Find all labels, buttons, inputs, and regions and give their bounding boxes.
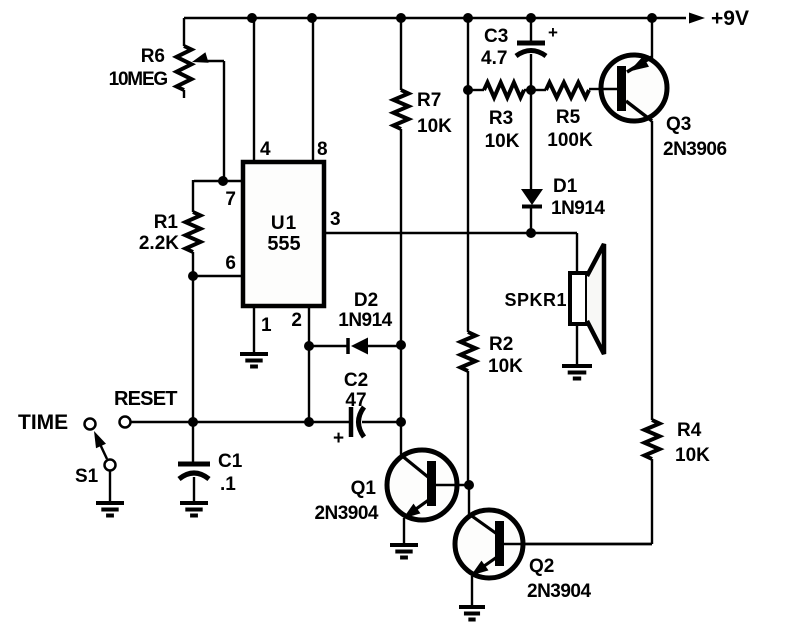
svg-text:3: 3 [330,209,341,230]
node reset-R1-C1 junction [188,417,198,427]
wire pin7 to R1 [192,180,194,212]
wire pin2 to D2 [309,345,347,347]
label C3 value [481,26,508,69]
svg-text:C3: C3 [484,26,508,47]
resistor R3 [484,83,524,98]
svg-text:+: + [548,23,558,42]
node RESET terminal [120,417,131,428]
svg-text:R3: R3 [489,108,513,129]
label pin 1 [261,315,272,336]
ground speaker [562,366,592,379]
label pin 6 [225,253,236,274]
label S1 [75,466,99,487]
svg-text:10K: 10K [485,131,520,152]
diode D1 1N914 [521,189,543,207]
wire R2 to Q1 collector node [467,371,469,485]
svg-text:R6: R6 [141,46,165,67]
ground pin 1 [240,354,268,367]
wire RESET to R1 node [131,421,193,423]
label pin 3 [330,209,341,230]
svg-text:2.2K: 2.2K [139,233,179,254]
svg-text:R2: R2 [489,334,513,355]
svg-text:C1: C1 [218,451,243,472]
wire pin 3 output [324,232,577,234]
svg-text:2: 2 [291,310,302,331]
label D1 value [551,176,605,219]
svg-text:4: 4 [260,139,271,160]
transistor Q2 2N3904 [455,510,652,578]
svg-text:S1: S1 [75,466,99,487]
wire R5 to Q3 base [589,88,601,90]
label U1 555 [267,213,300,255]
svg-text:U1: U1 [271,213,297,234]
svg-text:+9V: +9V [711,7,749,30]
wire reset node to C1 [192,422,194,462]
resistor R5 [546,83,589,98]
label TIME [18,411,68,434]
svg-text:+: + [333,428,344,449]
svg-text:100K: 100K [547,130,593,151]
transistor Q3 2N3906 [599,55,667,121]
svg-text:R1: R1 [154,212,179,233]
label R3 value [485,108,520,152]
label R2 value [488,334,523,377]
label R1 value [139,212,179,254]
wire reset row to pin2 node [193,421,309,423]
wire R3 to C3 node [524,89,531,91]
wire R6 wiper arm [192,52,224,181]
label pin 7 [225,189,236,210]
svg-text:2N3904: 2N3904 [314,503,378,524]
svg-text:C2: C2 [344,370,368,391]
label pin 2 [291,310,302,331]
node supply arrow +9V [689,7,749,30]
wire rail to R3 node [467,18,469,90]
svg-text:1N914: 1N914 [338,310,392,331]
svg-text:1N914: 1N914 [551,198,605,219]
svg-text:Q3: Q3 [666,114,691,135]
resistor R7 [394,90,409,129]
label pin 8 [317,139,328,160]
svg-text:10K: 10K [488,356,523,377]
svg-text:TIME: TIME [18,411,68,434]
svg-text:.1: .1 [220,474,236,495]
label Q2 value [527,556,591,602]
wire R6 bottom stub [183,90,185,98]
label R7 value [417,90,452,137]
node rail-pin4 junction [247,13,257,23]
node pin7 junction [218,176,228,186]
label R5 value [547,107,593,151]
svg-text:RESET: RESET [114,388,177,410]
wire pin 8 [312,18,314,162]
resistor R6 [177,46,192,90]
wire S1 to ground [109,470,111,502]
label D2 value [338,290,392,331]
svg-text:D2: D2 [354,290,378,311]
op-amp U1 555 timer box [243,162,324,306]
label Q3 value [663,114,727,160]
capacitor C1 .1 [178,464,210,479]
resistor R1 [186,212,201,252]
switch S1 [85,419,116,471]
node Q1-collector junction [464,480,474,490]
label pin 4 [260,139,271,160]
svg-text:Q2: Q2 [529,556,554,577]
svg-text:R7: R7 [417,90,441,111]
node rail-R2 junction [463,13,473,23]
wire R1 to pin6 node [192,252,194,277]
wire C3 node to D1 [530,90,532,189]
svg-text:Q1: Q1 [351,478,377,499]
node R3-R2 junction [463,85,473,95]
svg-text:47: 47 [345,390,366,411]
label R6 value [109,46,168,90]
node rail-R7 junction [396,13,406,23]
wire Q3 collector down [651,121,653,420]
transistor Q1 2N3904 [387,450,469,520]
wire speaker to ground [576,324,578,365]
node rail-Q3 junction [647,13,657,23]
wire R3 node down to R2 [467,90,469,332]
svg-text:8: 8 [317,139,328,160]
speaker SPKR1 [570,244,604,354]
node pin2-D2 junction [304,341,314,351]
svg-text:SPKR1: SPKR1 [504,290,567,310]
wire rail to R6 [183,18,185,46]
svg-text:2N3906: 2N3906 [663,139,727,160]
label RESET [114,388,177,410]
wire pin 7 [194,180,243,182]
wire pin2 node to C2 [309,421,349,423]
wire R1 node down to reset row [192,276,194,422]
svg-text:R4: R4 [677,420,702,441]
wire R3 left lead [468,89,484,91]
wire rail to R7 [400,18,402,90]
label R4 value [675,420,710,466]
wire R7 to D2 node [400,129,402,346]
wire C2 node to Q1 base [400,422,402,456]
capacitor C2 47 [333,407,364,449]
resistor R4 [645,420,660,459]
node rail-C3 junction [526,13,536,23]
wire +9V supply rail [184,17,686,20]
wire R5 left lead [531,89,546,91]
wire Q2 emitter to ground [471,576,473,606]
wire D2 to R7 line [367,345,401,347]
label SPKR1 [504,290,567,310]
svg-text:6: 6 [225,253,236,274]
node rail-pin8 junction [307,13,317,23]
wire C3 to R3 node [530,54,532,90]
node C2-Q1 junction [396,417,406,427]
label C1 value [218,451,243,495]
diode D2 1N914 [348,338,368,355]
wire pin 4 [253,18,255,162]
wire pin3 node to speaker [576,233,578,273]
wire pin 6 [193,275,243,277]
wire pin 2 [308,306,310,422]
ground S1 [96,503,124,516]
node R3-R5-C3-D1 junction [526,85,536,95]
node D1-pin3-speaker junction [526,228,536,238]
wire Q1 node to Q2 base [468,485,470,516]
wire Q3 emitter to rail [651,18,653,58]
label Q1 value [314,478,378,524]
node pin6 junction [188,271,198,281]
wire R4 to Q2 collector [505,459,652,544]
svg-text:D1: D1 [553,176,578,197]
wire D1 to pin3 node [530,206,532,233]
node pin2-C2 junction [304,417,314,427]
svg-text:10MEG: 10MEG [109,69,168,90]
ground Q2 [459,607,485,620]
resistor R2 [461,332,476,371]
wire pin 1 [253,306,255,353]
svg-text:4.7: 4.7 [481,48,507,69]
svg-text:1: 1 [261,315,272,336]
wire Q1 emitter to ground [403,518,405,544]
node D2-R7 junction [396,340,406,350]
svg-text:7: 7 [225,189,236,210]
wire C2 to Q1 node [362,421,401,423]
label C2 value [344,370,368,411]
wire rail to C3 [530,18,532,42]
svg-text:10K: 10K [417,116,452,137]
svg-text:2N3904: 2N3904 [527,581,591,602]
ground Q1 [390,545,418,558]
svg-text:10K: 10K [675,445,710,466]
wire D2 node to C2 node [400,345,402,422]
wire C1 to ground [193,477,195,502]
svg-text:555: 555 [267,233,300,255]
ground C1 [180,503,208,516]
svg-text:R5: R5 [556,107,581,128]
capacitor C3 4.7 [516,23,558,56]
